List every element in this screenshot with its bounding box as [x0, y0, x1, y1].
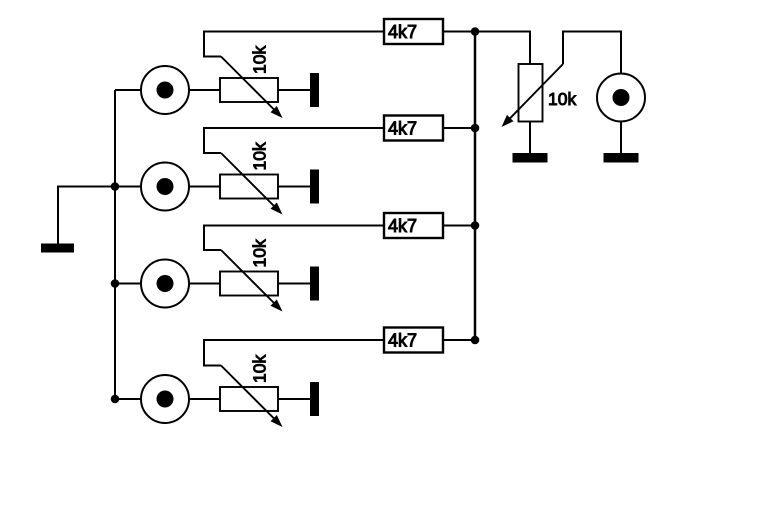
wire: bus to jack J2	[115, 186, 141, 188]
ground (output jack J5)	[604, 153, 639, 163]
resistor R1 4k7	[384, 19, 443, 44]
ground (channel 3)	[310, 267, 319, 301]
wire: potentiometer VR4 to ground	[278, 398, 310, 400]
potentiometer VR1 wiper arrow	[221, 57, 283, 119]
resistor R2 4k7	[384, 116, 443, 141]
wire: mix bus vertical	[474, 32, 477, 341]
svg-text:4k7: 4k7	[388, 216, 417, 236]
wire: bus to jack J4	[115, 398, 141, 400]
node: junction dot, input bus channel 2	[111, 182, 120, 191]
svg-text:4k7: 4k7	[388, 22, 417, 42]
ground (channel 1)	[310, 73, 319, 107]
wire: mix bus to master pot VR5 top	[475, 32, 530, 65]
wire: jack J2 to potentiometer VR2	[189, 186, 220, 188]
wire: jack J3 to potentiometer VR3	[189, 283, 220, 285]
ground (master pot VR5)	[513, 153, 548, 163]
wire: wiper of VR2 to resistor R2	[204, 128, 384, 153]
svg-text:10k: 10k	[250, 239, 270, 267]
node: junction dot, mix bus channel 3	[471, 221, 480, 230]
node: junction dot, mix bus channel 1	[471, 27, 480, 36]
wire: potentiometer VR2 to ground	[278, 186, 310, 188]
wire: output jack J5 to ground	[620, 122, 622, 154]
input jack J3 (RCA socket)	[141, 260, 189, 308]
input jack J2 (RCA socket)	[141, 163, 189, 211]
ground (channel 4)	[310, 382, 319, 416]
potentiometer VR1 body	[220, 78, 278, 102]
potentiometer VR4 wiper arrow	[221, 366, 283, 428]
ground (input bus)	[41, 244, 74, 253]
node: junction dot, mix bus channel 4	[471, 336, 480, 345]
wire: resistor R1 to mix bus	[443, 31, 475, 33]
node: junction dot, input bus channel 4	[111, 395, 120, 404]
wire: left input bus vertical	[114, 90, 116, 399]
wire: jack J1 to potentiometer VR1	[189, 89, 220, 91]
svg-text:10k: 10k	[250, 142, 270, 170]
svg-text:10k: 10k	[250, 46, 270, 74]
svg-text:4k7: 4k7	[388, 331, 417, 351]
resistor R3 4k7	[384, 213, 443, 238]
wire: wiper of VR3 to resistor R3	[204, 226, 384, 251]
potentiometer VR5 wiper arrow	[502, 64, 564, 127]
node: junction dot, mix bus channel 2	[471, 124, 480, 133]
potentiometer VR4 body	[220, 387, 278, 411]
wire: VR5 bottom to ground	[529, 122, 531, 154]
svg-text:4k7: 4k7	[388, 119, 417, 139]
node: junction dot, input bus channel 3	[111, 279, 120, 288]
output jack J5 (RCA socket)	[597, 74, 645, 122]
wire: resistor R4 to mix bus	[443, 339, 475, 341]
wire: ground stub from input bus	[58, 187, 115, 244]
wire: bus to jack J1	[115, 89, 141, 91]
potentiometer VR3 body	[220, 272, 278, 296]
input jack J4 (RCA socket)	[141, 375, 189, 423]
potentiometer VR3 wiper arrow	[221, 250, 283, 312]
svg-text:10k: 10k	[250, 355, 270, 383]
potentiometer VR2 wiper arrow	[221, 153, 283, 215]
wire: bus to jack J3	[115, 283, 141, 285]
input jack J1 (RCA socket)	[141, 66, 189, 114]
wire: resistor R2 to mix bus	[443, 127, 475, 129]
wire: VR5 wiper to output jack J5	[563, 32, 621, 74]
wire: wiper of VR4 to resistor R4	[204, 340, 384, 366]
potentiometer VR5 (master volume) body	[519, 64, 543, 122]
wire: jack J4 to potentiometer VR4	[189, 398, 220, 400]
wire: wiper of VR1 to resistor R1	[204, 32, 384, 57]
wire: potentiometer VR3 to ground	[278, 283, 310, 285]
resistor R4 4k7	[384, 328, 443, 353]
potentiometer VR2 body	[220, 175, 278, 199]
wire: resistor R3 to mix bus	[443, 225, 475, 227]
wire: potentiometer VR1 to ground	[278, 89, 310, 91]
ground (channel 2)	[310, 170, 319, 204]
svg-text:10k: 10k	[548, 89, 576, 109]
